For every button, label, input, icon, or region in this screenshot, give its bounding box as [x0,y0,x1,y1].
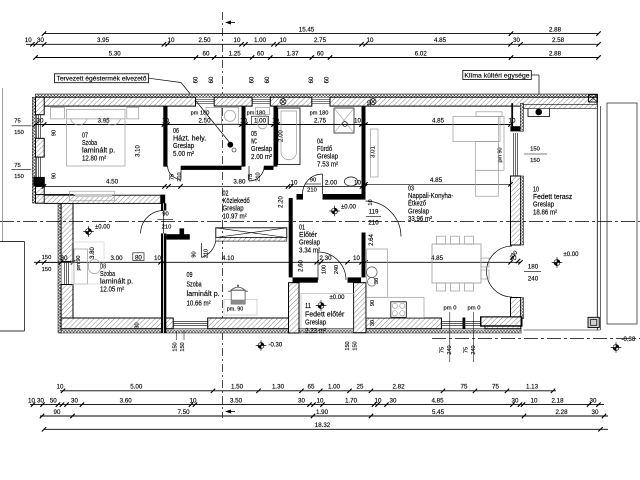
terrace corner column [588,317,599,327]
svg-text:3.60: 3.60 [120,397,133,404]
svg-text:3.95: 3.95 [97,37,110,44]
svg-text:5.00: 5.00 [130,384,143,391]
column box at top-right corner [589,95,598,103]
bed room 07 [67,109,126,166]
svg-text:10: 10 [272,117,279,124]
svg-text:150: 150 [14,174,24,180]
wall 08|09 [161,203,166,333]
terrace door arcs [487,246,513,297]
wall 04|03 [362,106,366,198]
room 07 label [82,133,115,163]
svg-text:150: 150 [42,267,52,273]
svg-text:1.30: 1.30 [272,384,285,391]
outer wall: bottom seg4 [485,318,521,329]
sideboard living [370,129,378,177]
svg-text:10: 10 [234,37,241,44]
door 75/210 label WC [248,172,262,181]
svg-text:10.66 m²: 10.66 m² [187,301,212,308]
top window W1 (60) [196,100,215,104]
svg-text:119: 119 [369,209,379,216]
door 75/210 label room06 [170,172,184,181]
svg-text:60: 60 [317,50,324,57]
svg-text:2.88: 2.88 [549,26,562,33]
svg-text:90: 90 [52,130,58,136]
svg-text:Greslap: Greslap [251,146,272,153]
svg-text:75: 75 [14,163,20,169]
svg-text:WC: WC [251,139,257,146]
svg-text:30: 30 [37,37,44,44]
svg-text:150: 150 [353,341,359,350]
svg-text:10: 10 [509,117,516,124]
svg-text:1.00: 1.00 [328,384,341,391]
toilet WC [256,108,270,129]
svg-text:25: 25 [357,384,364,391]
outer wall: bottom insulation strip [61,329,521,333]
svg-text:30: 30 [135,322,141,328]
svg-text:33.96 m²: 33.96 m² [408,216,433,223]
svg-text:1.90: 1.90 [316,409,329,416]
svg-text:90: 90 [52,173,58,179]
svg-text:Greslap: Greslap [305,320,326,327]
svg-text:2.00: 2.00 [325,180,338,187]
porch right wall [354,283,367,333]
right neighbour rect [607,103,637,324]
kitchen counter horizontal [367,297,425,317]
svg-text:2.58: 2.58 [552,37,565,44]
svg-text:2.75: 2.75 [314,117,327,124]
svg-text:3.95: 3.95 [98,117,111,124]
svg-text:Klíma kültéri egysége: Klíma kültéri egysége [464,72,530,79]
svg-text:Szoba: Szoba [187,282,202,289]
svg-text:30: 30 [590,397,597,404]
svg-text:Tervezett égéstermék elvezető: Tervezett égéstermék elvezető [57,76,147,83]
left 150 pair (room 08 window) [38,255,57,273]
svg-text:15.45: 15.45 [299,26,315,33]
outer wall: bottom seg1 [61,318,173,329]
svg-text:10: 10 [368,199,374,205]
svg-text:5.00 m²: 5.00 m² [173,151,195,158]
svg-text:10: 10 [367,37,374,44]
room 09 top wall [166,228,190,239]
svg-text:30: 30 [592,409,599,416]
klima outdoor unit [528,108,550,117]
svg-text:1.25: 1.25 [229,50,242,57]
svg-text:2.30: 2.30 [319,255,332,262]
svg-text:30: 30 [512,397,519,404]
svg-text:pm 180: pm 180 [310,111,329,117]
svg-text:10: 10 [154,255,161,262]
outer wall: left insulation strip [32,97,35,203]
svg-text:150: 150 [42,255,52,261]
window 150/150 label right [524,147,547,165]
svg-text:10: 10 [375,397,382,404]
dim 80 with leader [133,253,144,261]
rot dim 2.60 room09 [299,260,305,272]
svg-text:10: 10 [57,384,64,391]
dimension row B1 [57,384,556,393]
svg-text:2.20: 2.20 [279,196,285,208]
svg-text:±0.00: ±0.00 [564,252,580,258]
rot 150/150 below room09 window [173,331,187,352]
svg-text:30: 30 [370,320,376,326]
svg-text:60: 60 [194,76,200,83]
room 06 label [173,128,206,158]
svg-text:10: 10 [353,255,360,262]
svg-text:18.86 m²: 18.86 m² [533,209,558,216]
svg-text:30: 30 [71,397,78,404]
svg-text:2.64: 2.64 [369,234,375,246]
svg-text:5.30: 5.30 [109,50,122,57]
entrance wall seg left [293,277,318,282]
outer wall: top band seg4 [330,97,597,106]
outer wall: bottom seg2 [208,318,292,329]
svg-text:90: 90 [162,212,168,218]
corridor top wall seg2 [264,166,274,170]
svg-text:laminált p.: laminált p. [100,279,133,286]
terrace top strip [524,104,598,108]
rot 90/30 kitchen [370,278,380,326]
room 08 label [100,264,133,294]
rot 90 window marks left [52,130,58,179]
svg-text:1.00: 1.00 [254,117,267,124]
svg-text:Házt. hely.: Házt. hely. [173,136,206,143]
bottom window W7 (room 09) [173,321,208,325]
svg-text:90: 90 [54,409,61,416]
svg-text:60: 60 [309,76,315,83]
door arc WC [249,166,264,181]
svg-text:Fedett terasz: Fedett terasz [533,194,573,201]
svg-text:4.10: 4.10 [222,255,235,262]
outer wall: top insulation strip [36,94,598,97]
flue black dot [227,142,236,152]
elevation +-0.00 porch [316,295,345,311]
dresser room 07 [70,191,115,201]
svg-text:10: 10 [25,37,32,44]
washbasin bath [344,177,357,186]
rot dim 3.10 room07 [136,145,142,157]
svg-text:-0.30: -0.30 [269,343,283,349]
outer wall: top band seg3 [270,97,312,106]
svg-text:-0.30: -0.30 [622,337,636,343]
svg-text:10: 10 [240,117,247,124]
wardrobe lines room07 [44,107,50,109]
svg-text:pm 0: pm 0 [468,306,481,312]
svg-text:06: 06 [173,128,179,135]
svg-text:±0.00: ±0.00 [341,205,357,211]
svg-text:60: 60 [250,76,256,83]
pm 180 labels [191,111,329,117]
room 03 label [408,186,454,223]
svg-text:Greslap: Greslap [533,202,554,209]
svg-text:10: 10 [280,37,287,44]
svg-text:laminált p.: laminált p. [82,148,115,155]
left window labels 75/150 low [12,163,32,180]
svg-text:30: 30 [37,397,44,404]
svg-text:75: 75 [461,384,468,391]
pm 0 labels with leaders [444,306,481,363]
rot dim 3.80 room08 [90,247,96,259]
door 90/210 label room08 [158,212,174,231]
door 06 opening [0,0,1,1]
svg-text:Greslap: Greslap [299,240,320,247]
wall 05|04 [274,106,278,167]
outer wall: left lower insulation [58,203,61,333]
svg-text:7.53 m²: 7.53 m² [317,161,339,168]
column symbol in top wall 2 [370,99,376,105]
top window W3 (60) [312,100,330,104]
svg-text:02: 02 [223,191,229,198]
wall 07|06 [163,106,167,167]
outer wall: top band seg1 [36,97,196,106]
entrance wall seg right [348,277,362,282]
svg-text:05: 05 [251,131,257,138]
svg-text:Greslap: Greslap [173,143,194,150]
left window W6 (room 08) [65,261,69,284]
svg-text:10: 10 [168,37,175,44]
svg-text:04: 04 [317,139,323,146]
door arc room09 [202,241,216,258]
living dim 4.85 lower [363,177,512,187]
svg-text:4.85: 4.85 [434,37,447,44]
svg-text:±0.00: ±0.00 [330,295,346,301]
elevation +-0.00 living east [552,252,579,268]
svg-text:150: 150 [530,147,540,153]
svg-text:210: 210 [307,188,317,194]
svg-text:±0.00: ±0.00 [95,225,111,231]
svg-text:09: 09 [187,272,193,279]
label box: Tervezett egestermek elvezeto [55,74,231,143]
bottom window W9 (pm 0) [465,321,485,325]
door 90/210 label room09 [192,249,210,258]
elevation +-0.00 room08 area [83,225,110,237]
svg-text:1.70: 1.70 [345,397,358,404]
svg-text:60: 60 [203,50,210,57]
wall 02|01 [289,198,293,277]
door arc bath [303,174,323,194]
room 01 label [299,225,321,255]
svg-text:10: 10 [533,187,539,194]
column symbol in top wall 1 [280,99,286,105]
svg-text:150: 150 [14,130,24,136]
entrance door opening 100/240 [0,0,1,1]
svg-text:240: 240 [334,265,340,274]
svg-text:Greslap: Greslap [317,154,338,161]
sofa [453,112,504,196]
svg-text:Étkező: Étkező [408,199,426,208]
bottom window W8 (pm 0) [441,321,462,325]
svg-text:3.80: 3.80 [233,179,246,186]
svg-text:18.32: 18.32 [315,422,331,429]
outer wall: right seg hatch [511,176,524,245]
svg-text:10: 10 [190,397,197,404]
svg-text:150: 150 [530,158,540,164]
svg-text:60: 60 [325,76,331,83]
svg-text:2.50: 2.50 [198,37,211,44]
elevation -0.30 south [256,340,283,351]
svg-text:240: 240 [528,276,539,283]
svg-text:2.00 m²: 2.00 m² [251,154,273,161]
door arc entrance [318,252,346,280]
svg-text:12.05 m²: 12.05 m² [100,286,125,293]
wall 01|03 lower [362,233,366,278]
rot 75/240 pairs below living windows [440,345,478,354]
svg-text:3.00: 3.00 [110,255,123,262]
svg-text:pm 180: pm 180 [191,111,210,117]
svg-text:1.13: 1.13 [526,384,539,391]
in-plan dim row P2 [34,255,523,265]
pm 90 room09 [227,307,243,313]
left boundary line [2,88,4,242]
dimension row T1 (15.45 / 2.88) [42,26,601,35]
section line A-A [223,12,236,418]
outer wall: left seg1 [36,97,45,115]
corridor top wall seg1 [181,166,242,170]
svg-text:75: 75 [440,347,446,353]
property dash-dot line horizontal [0,221,640,223]
label box: Klima kulteri egysege [463,71,539,110]
room 04 label [317,139,339,169]
outer wall: step band [36,195,74,204]
elevation -0.30 east [611,337,636,353]
svg-text:2.18: 2.18 [551,397,564,404]
left window labels 75/150 up [12,119,32,137]
rot dim 2.00 tub [279,130,285,142]
svg-text:60: 60 [265,76,271,83]
svg-text:3.80: 3.80 [90,247,96,259]
door arc room08 [141,211,164,234]
svg-text:3.01: 3.01 [371,146,377,158]
svg-text:4.85: 4.85 [431,255,444,262]
svg-text:30: 30 [298,397,305,404]
svg-text:75: 75 [492,384,499,391]
svg-text:Greslap: Greslap [408,208,429,215]
porch left wall [289,283,300,333]
svg-text:65: 65 [308,384,315,391]
room 07/08 divider band [44,195,165,204]
window width labels 60 (rotated) [194,76,331,83]
terrace french door opening [0,0,1,1]
rot dim 3.01 living [371,146,377,158]
svg-text:2.60: 2.60 [299,260,305,272]
svg-text:3.34 m²: 3.34 m² [299,247,321,254]
left window W4 [37,115,41,139]
room 11 label [305,303,345,335]
closet with X (attic access) [216,228,287,241]
svg-text:laminált p.: laminált p. [187,291,220,298]
svg-text:pm 0: pm 0 [444,306,457,312]
room 10 label [533,187,573,217]
svg-text:1.37: 1.37 [286,50,299,57]
svg-text:2.00: 2.00 [279,130,285,142]
door 100/240 label entrance [322,265,341,274]
svg-text:Közlekedő: Közlekedő [223,198,250,205]
svg-text:210: 210 [162,225,172,231]
svg-text:5.45: 5.45 [432,409,445,416]
svg-text:pm. 90: pm. 90 [227,307,243,313]
svg-text:4.50: 4.50 [106,179,119,186]
door 05 opening [0,0,1,1]
svg-text:100: 100 [322,265,328,274]
door arc living [366,201,402,237]
right window W10 (150) [514,133,518,176]
svg-text:210: 210 [204,249,210,258]
svg-text:Fedett előtér: Fedett előtér [305,311,345,318]
svg-text:210: 210 [177,172,183,181]
svg-text:10.97 m²: 10.97 m² [223,213,248,220]
living door opening 119 [0,0,1,1]
svg-text:210: 210 [368,220,379,227]
svg-text:1.50: 1.50 [231,384,244,391]
outer wall: top band seg2 [214,97,252,106]
elevation +-0.00 entrance [329,205,356,217]
rot 150/150 below porch [345,341,359,350]
outer wall: bottom seg3 (under living) [366,318,441,329]
top window W2 (60) [252,100,270,104]
svg-text:3.10: 3.10 [136,145,142,157]
outer wall: left lower seg1 [61,203,73,261]
pm 90 room08 [76,256,82,271]
svg-text:Szoba: Szoba [100,271,115,278]
svg-text:4.85: 4.85 [432,117,445,124]
left window W5 [37,157,41,177]
rot dim 2.20 corridor [279,196,285,208]
left neighbour building outline [0,242,25,332]
svg-text:pm 90: pm 90 [76,256,82,271]
svg-text:10: 10 [354,117,361,124]
svg-text:2.28: 2.28 [555,409,568,416]
svg-text:Nappali-Konyha-: Nappali-Konyha- [408,193,454,200]
svg-text:2.75: 2.75 [314,37,327,44]
bath bottom wall seg1 [297,194,304,200]
svg-text:30: 30 [513,37,520,44]
wall label 30 in bottom band [135,322,141,328]
outer wall: right cap black [510,103,523,131]
svg-text:30: 30 [61,255,68,262]
outer wall: right corner [511,298,524,319]
svg-text:240: 240 [447,345,453,354]
dimension row B4 [42,422,608,432]
svg-text:180: 180 [528,264,539,271]
svg-text:10: 10 [531,397,538,404]
in-plan dim row P1 [33,117,516,126]
dimension row T3 [33,50,600,59]
svg-text:10: 10 [28,397,35,404]
svg-text:90: 90 [310,178,316,184]
room 09 door opening [0,0,1,1]
svg-text:90: 90 [192,251,198,257]
svg-text:240: 240 [471,345,477,354]
svg-text:Greslap: Greslap [223,206,244,213]
svg-text:30: 30 [390,397,397,404]
rot dim 2.64 entrance [369,234,375,246]
svg-text:2.82: 2.82 [392,384,405,391]
svg-text:2.50: 2.50 [198,117,211,124]
pm 90 sofa [498,148,504,163]
outer wall: bottom-right corner block [480,316,523,326]
wood stove room 09 [224,285,257,315]
svg-text:10: 10 [317,397,324,404]
svg-text:6.02: 6.02 [415,50,428,57]
bottom window mullion [463,318,466,330]
dimension row B2 [28,397,604,406]
svg-text:75: 75 [464,347,470,353]
svg-text:1.00: 1.00 [254,37,267,44]
wall 06|05 [242,106,246,167]
svg-text:12.80 m²: 12.80 m² [82,155,107,162]
svg-text:75: 75 [14,119,20,125]
shower [334,108,354,133]
dim 4.50 row [42,178,367,194]
